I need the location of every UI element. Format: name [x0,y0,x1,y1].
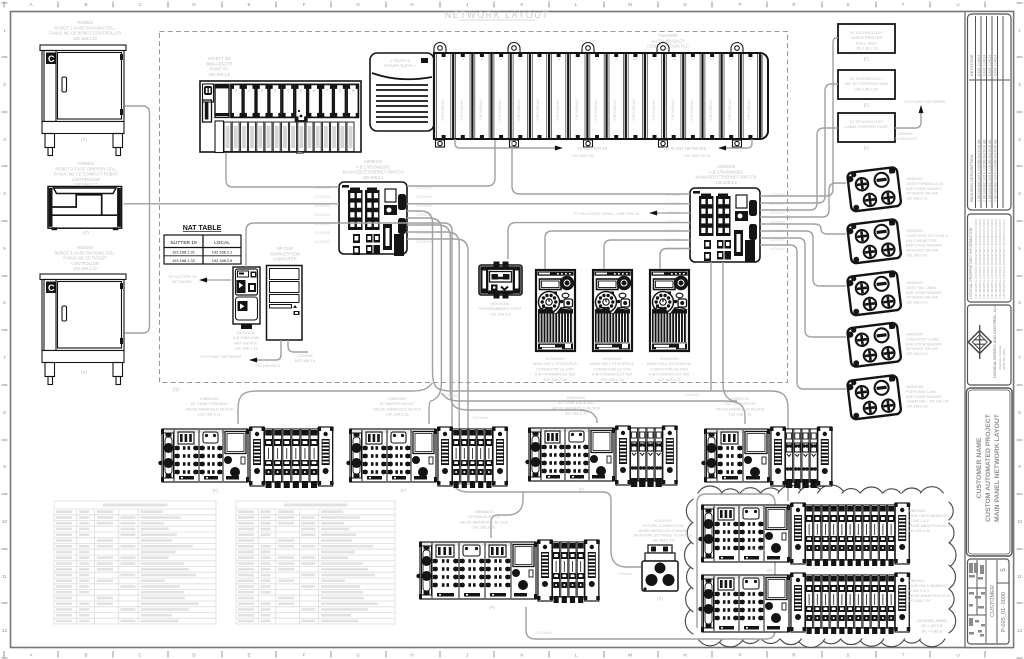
svg-text:11: 11 [2,574,7,579]
VFD drive 2: PowerFlex 525 [593,270,632,351]
svg-text:1756 MODULE: 1756 MODULE [690,99,694,121]
valve manifold block 4 (IO tilt conveyor) [701,427,833,488]
svg-text:14: 14 [710,57,714,61]
wire: switch1 spare wires to corridor [407,232,459,484]
svg-text:1756 MODULE: 1756 MODULE [536,99,540,121]
svg-text:CAT5E##: CAT5E## [314,231,329,235]
svg-text:CAT5E##: CAT5E## [416,204,431,208]
svg-text:T: T [902,2,905,7]
svg-text:1756 MODULE: 1756 MODULE [460,99,464,121]
svg-text:1756 MODULE: 1756 MODULE [517,99,521,121]
svg-text:C: C [48,283,55,293]
svg-text:192.168.2.8: 192.168.2.8 [212,258,233,263]
svg-text:8: 8 [3,410,6,415]
svg-text:4: 4 [3,191,6,196]
printer: label printer case [838,113,895,142]
svg-text:192.168.2.1: 192.168.2.1 [212,250,233,255]
svg-text:DATE 10/4/24: DATE 10/4/24 [977,55,981,76]
svg-text:6: 6 [558,57,560,61]
svg-text:THIS DRAWING CONTAINS PROPRIET: THIS DRAWING CONTAINS PROPRIETARY INFORM… [998,219,1002,299]
device: NAT router module [233,267,260,329]
wire: switch 2 to pendant 5 [760,245,846,389]
svg-text:5: 5 [3,246,6,251]
svg-text:THIS DRAWING CONTAINS PROPRIET: THIS DRAWING CONTAINS PROPRIETARY INFORM… [978,219,982,299]
svg-text:LOCAL: LOCAL [214,240,230,246]
svg-text:NAT TABLE: NAT TABLE [183,225,222,232]
wire: manifold 5 bottom loop through cloud [526,494,775,639]
wire: rack to slitter 19 with arrow [455,139,556,148]
table: manifold block 1 IO point listing [54,501,216,624]
svg-text:2 DESIGNED WITH COORDINATION: 2 DESIGNED WITH COORDINATION AB [977,139,981,202]
svg-text:S: S [846,2,849,7]
svg-text:CAT5E##: CAT5E## [416,195,431,199]
wire: printer 3 to plant network arrow [895,112,921,128]
device: festo service unit [642,545,678,591]
svg-text:2: 2 [3,82,6,87]
svg-text:TO SLITTER 19: TO SLITTER 19 [577,146,608,151]
cloud: future valve manifold blocks revision cloud [685,485,957,647]
svg-text:(F): (F) [864,146,870,151]
svg-text:2 DESIGNED WITH COORDINATION: 2 DESIGNED WITH COORDINATION AB [983,139,987,202]
svg-text:7: 7 [3,355,6,360]
svg-text:3: 3 [1018,137,1021,142]
svg-text:8: 8 [596,57,598,61]
svg-text:TO PLANT NETWORK: TO PLANT NETWORK [201,354,242,359]
wire: safety rack to switch 1 [226,153,339,187]
ethernet switch 2: stratix managed switch [690,188,760,262]
svg-text:(F): (F) [864,103,870,108]
operator station 5: pushbutton/E-stop pendant [846,375,901,420]
svg-text:CAT5E##: CAT5E## [314,204,329,208]
wire: drive 3 to switch 2 [660,249,690,270]
svg-text:CAT5E##: CAT5E## [769,247,784,251]
valve manifold block 2 (IO water jacket) [346,427,508,488]
operator station 1: pushbutton/E-stop pendant [846,167,901,212]
svg-text:L: L [575,2,578,7]
svg-text:NETWORK LAYOUT: NETWORK LAYOUT [445,10,550,20]
svg-text:(F): (F) [579,487,585,492]
wire: switch 2 to pendant 4 [760,238,846,337]
svg-text:6: 6 [3,300,6,305]
svg-text:DATE 10/4/24: DATE 10/4/24 [988,55,992,76]
wire: PC to plant network with arrow [256,340,281,360]
svg-text:15: 15 [729,57,733,61]
wire: switch 2 to printer 2 [760,84,838,203]
svg-text:192.168.100.11: 192.168.100.11 [256,364,281,368]
wire: switch1 to main rack [407,140,495,186]
svg-text:B: B [84,653,87,658]
svg-text:N: N [683,653,686,658]
valve manifold block 7 (case pack banding 3&4, in cloud) [698,573,910,634]
svg-text:7: 7 [1018,355,1021,360]
valve manifold block 3 (IO case packing) [525,426,678,487]
svg-text:CAT####: CAT#### [685,393,700,397]
svg-text:16: 16 [748,57,752,61]
svg-text:S: S [846,653,849,658]
svg-text:(1): (1) [173,387,179,393]
svg-text:CAT####: CAT#### [445,394,460,398]
svg-text:2: 2 [1018,82,1021,87]
wire: switch1 to manifold 2 (L2) [407,218,441,424]
svg-text:0: 0 [443,57,445,61]
svg-text:192.168.100.10: 192.168.100.10 [684,154,710,158]
svg-text:CAT####: CAT#### [473,416,488,420]
table: manifold block 2 IO point listing [236,501,395,624]
svg-text:F: F [303,2,306,7]
svg-text:G: G [356,653,360,658]
wire: switch1 to manifold 1 trunk (L1) [407,211,711,391]
svg-text:9: 9 [3,464,6,469]
svg-text:MAIN PANEL NETWORK LAYOUT: MAIN PANEL NETWORK LAYOUT [994,413,1001,522]
valve manifold block 6 (case pack banding 1&2, in cloud) [698,503,910,566]
wire: switch 2 to pendant 1 [760,183,846,217]
svg-text:THIS DRAWING CONTAINS PROPRIET: THIS DRAWING CONTAINS PROPRIETARY INFORM… [982,219,986,299]
svg-text:12: 12 [672,57,676,61]
svg-text:CAT5E##: CAT5E## [416,240,431,244]
svg-text:THIS DRAWING CONTAINS PROPRIET: THIS DRAWING CONTAINS PROPRIETARY INFORM… [1002,219,1006,299]
wire: trunk switch1 to switch2 [407,203,690,205]
svg-text:THIS DRAWING CONTAINS PROPRIET: THIS DRAWING CONTAINS PROPRIETARY INFORM… [974,219,978,299]
svg-text:5: 5 [538,57,540,61]
enclosure: robot controller chassis (iso) [48,187,122,229]
svg-text:P-025_01- 0000: P-025_01- 0000 [1001,592,1007,632]
dashed panel boundary: main panel [160,32,788,383]
svg-text:B: B [84,2,87,7]
svg-text:CUSTOMER: CUSTOMER [990,585,996,617]
svg-text:M: M [628,2,632,7]
svg-text:KEYSTONE: KEYSTONE [969,54,974,76]
svg-text:1756 MODULE: 1756 MODULE [632,99,636,121]
wire: L4 branch to manifold 5 top [491,492,523,538]
svg-text:H: H [410,2,413,7]
svg-text:(F): (F) [81,370,87,375]
VFD drive 3: PowerFlex 525 [650,270,689,351]
wire: rack to plant network with arrow [726,139,752,148]
svg-text:CAT####: CAT#### [750,548,765,552]
title block: drawing number table [990,568,1007,632]
svg-text:5: 5 [1018,246,1021,251]
svg-text:2 DESIGNED WITH COORDINATION: 2 DESIGNED WITH COORDINATION AB [994,139,998,202]
ethernet switch 1: stratix managed switch [339,182,407,254]
enclosure: robot cell 3 controller cabinet [40,274,126,385]
printer: label printer roll side [838,24,895,53]
arrow: to slitter 19 network [206,279,231,281]
wire: switch2 bottom to L1 [710,262,712,391]
svg-text:M: M [628,653,632,658]
svg-text:TO PALLETIZE PANEL, USE 2351-N: TO PALLETIZE PANEL, USE 2351-N [573,211,639,216]
wire: L1 to cloud manifold [711,391,788,500]
svg-text:ID TECHNOLOGYLABEL PRINTER CAS: ID TECHNOLOGYLABEL PRINTER CASE [845,119,888,129]
svg-text:11: 11 [1017,574,1022,579]
svg-text:CAT5E##: CAT5E## [769,211,784,215]
device: servo programming port module [479,262,522,299]
svg-text:DATE 10/4/24: DATE 10/4/24 [994,55,998,76]
svg-text:10: 10 [2,519,8,524]
svg-text:TO PLANT NETWORK: TO PLANT NETWORK [905,99,946,104]
svg-text:P: P [738,653,741,658]
svg-text:9: 9 [615,57,617,61]
wire: cabinet 3 to trunk [125,204,150,333]
svg-text:1: 1 [3,28,6,33]
svg-text:1756 MODULE: 1756 MODULE [709,99,713,121]
svg-text:3: 3 [3,137,6,142]
title block: right side strip [965,12,1014,648]
svg-text:U: U [956,653,959,658]
title block: revision table text [969,54,998,202]
svg-text:J: J [466,653,468,658]
wire: switch 2 to pendant 2 [760,224,846,234]
svg-text:4: 4 [519,57,521,61]
svg-text:192.168.1.32: 192.168.1.32 [172,258,195,263]
svg-text:THIS DRAWING CONTAINS PROPRIET: THIS DRAWING CONTAINS PROPRIETARY INFORM… [990,219,994,299]
wire: switch 2 to pendant 3 [760,231,846,286]
svg-text:L: L [575,653,578,658]
valve manifold block 5 (storage rack) [416,540,600,603]
svg-text:(F): (F) [864,57,870,62]
wire: drive 2 to switch 2 [604,240,690,269]
svg-text:(F): (F) [767,568,773,573]
svg-text:1756 MODULE: 1756 MODULE [479,99,483,121]
svg-text:1756 MODULE: 1756 MODULE [556,99,560,121]
svg-text:C: C [48,54,55,64]
valve manifold block 1 (IO cell forming) [158,427,333,488]
svg-text:4: 4 [1018,191,1021,196]
svg-text:1: 1 [1018,28,1021,33]
svg-text:LOGICAL PROPRIETARY INFORMATIO: LOGICAL PROPRIETARY INFORMATION [969,227,973,299]
wire: cabinet 1 to trunk [125,106,150,204]
svg-text:H: H [410,653,413,658]
svg-text:REVISION DESCRIPTION: REVISION DESCRIPTION [969,154,974,202]
wire: switch2 to servo module [508,223,690,259]
operator station 4: pushbutton/E-stop pendant [846,322,901,367]
svg-text:2: 2 [481,57,483,61]
wire: cloud entry segment [787,478,789,501]
title block: company logo [968,305,1006,378]
operator station 2: pushbutton/E-stop pendant [846,219,901,264]
svg-text:U: U [956,2,959,7]
svg-text:(F): (F) [742,488,748,493]
svg-text:3: 3 [500,57,502,61]
svg-text:T: T [902,653,905,658]
svg-text:1756 MODULE: 1756 MODULE [652,99,656,121]
svg-text:CAT####: CAT#### [618,572,633,576]
svg-text:E: E [247,2,250,7]
title block: proprietary note text [969,219,1006,299]
svg-text:12: 12 [2,628,8,633]
wire: switch1 to manifold 3 (L3) [407,225,597,423]
svg-text:1756 MODULE: 1756 MODULE [441,99,445,121]
svg-text:THIS DRAWING CONTAINS PROPRIET: THIS DRAWING CONTAINS PROPRIETARY INFORM… [986,219,990,299]
svg-text:1756 MODULE: 1756 MODULE [747,99,751,121]
wire: main rack to switch2 [512,140,690,194]
svg-text:G: G [356,2,360,7]
svg-text:(F): (F) [657,596,663,601]
svg-text:1756 MODULE: 1756 MODULE [575,99,579,121]
svg-text:E: E [247,653,250,658]
svg-text:N: N [683,2,686,7]
svg-text:LOGICAL DESIGN AND CONTROL, LL: LOGICAL DESIGN AND CONTROL, LLC [992,305,997,378]
svg-text:1756 MODULE: 1756 MODULE [728,99,732,121]
svg-text:6: 6 [1018,300,1021,305]
svg-text:TO PLANT NETWORK: TO PLANT NETWORK [664,146,707,151]
device: workstation PC tower [267,266,303,341]
svg-text:(F): (F) [81,137,87,142]
svg-text:(F): (F) [401,488,407,493]
wire: switch 2 to printer 3 [760,128,838,210]
wire: L2 east to manifold 4 [441,393,745,424]
svg-text:(F): (F) [83,230,89,235]
table: NAT TABLE [164,225,241,264]
svg-text:CAT5E##: CAT5E## [314,213,329,217]
svg-text:J: J [466,2,468,7]
svg-text:10: 10 [1017,519,1023,524]
svg-text:CUSTOMER NAME: CUSTOMER NAME [976,437,983,498]
svg-text:7: 7 [577,57,579,61]
svg-text:192.168.1.50: 192.168.1.50 [572,154,594,158]
svg-text:1756 MODULE: 1756 MODULE [498,99,502,121]
svg-text:1: 1 [462,57,464,61]
wire: switch 2 to printer 1 [760,38,838,196]
svg-text:1756 MODULE: 1756 MODULE [594,99,598,121]
svg-text:CUSTOM AUTOMATED PROJECT: CUSTOM AUTOMATED PROJECT [985,413,992,522]
svg-text:CAT####: CAT#### [537,631,552,635]
svg-text:CAT5E##: CAT5E## [314,240,329,244]
svg-text:10: 10 [633,57,637,61]
svg-text:11: 11 [653,57,657,61]
svg-text:12: 12 [1017,628,1023,633]
arrow: to palletize panel [656,212,690,214]
svg-text:8: 8 [1018,410,1021,415]
svg-text:1756 MODULE: 1756 MODULE [613,99,617,121]
wire: switch2 bottom to L2 [723,262,737,401]
svg-text:THIS DRAWING CONTAINS PROPRIET: THIS DRAWING CONTAINS PROPRIETARY INFORM… [994,219,998,299]
operator station 3: pushbutton/E-stop pendant [846,271,901,316]
wire: drive 1 to switch 2 [545,231,690,269]
svg-text:CAT5E##: CAT5E## [314,195,329,199]
VFD drive 1: PowerFlex 525 [536,270,575,351]
svg-text:DATE 10/4/24: DATE 10/4/24 [983,55,987,76]
svg-text:(800) 420-1811: (800) 420-1811 [1002,349,1006,370]
svg-text:CAT5E##MGT.168.1.8: CAT5E##MGT.168.1.8 [295,354,316,363]
wire: L1 west branch to manifold 1 [238,383,433,424]
title block: project title text [976,413,1001,522]
svg-text:13: 13 [691,57,695,61]
svg-text:(F): (F) [213,488,219,493]
svg-text:F: F [303,653,306,658]
svg-text:1756 MODULE: 1756 MODULE [671,99,675,121]
svg-text:(F): (F) [489,605,495,610]
enclosure: robot cell 1 controller cabinet [40,45,126,156]
printer: ink jet printer side [838,70,895,99]
svg-text:2 DESIGNED WITH COORDINATION: 2 DESIGNED WITH COORDINATION AB [988,139,992,202]
wire: NAT device to bottom corridor [246,223,641,567]
svg-text:SLITTER 19: SLITTER 19 [170,240,197,246]
svg-text:SAFETY I/O5069-AEN2TRPOINT I/O: SAFETY I/O5069-AEN2TRPOINT I/O192.168.1.… [206,56,233,77]
svg-text:192.168.1.31: 192.168.1.31 [172,250,195,255]
svg-text:9: 9 [1018,464,1021,469]
wire: trunk to switch 1 [124,203,340,205]
svg-text:P: P [738,2,741,7]
